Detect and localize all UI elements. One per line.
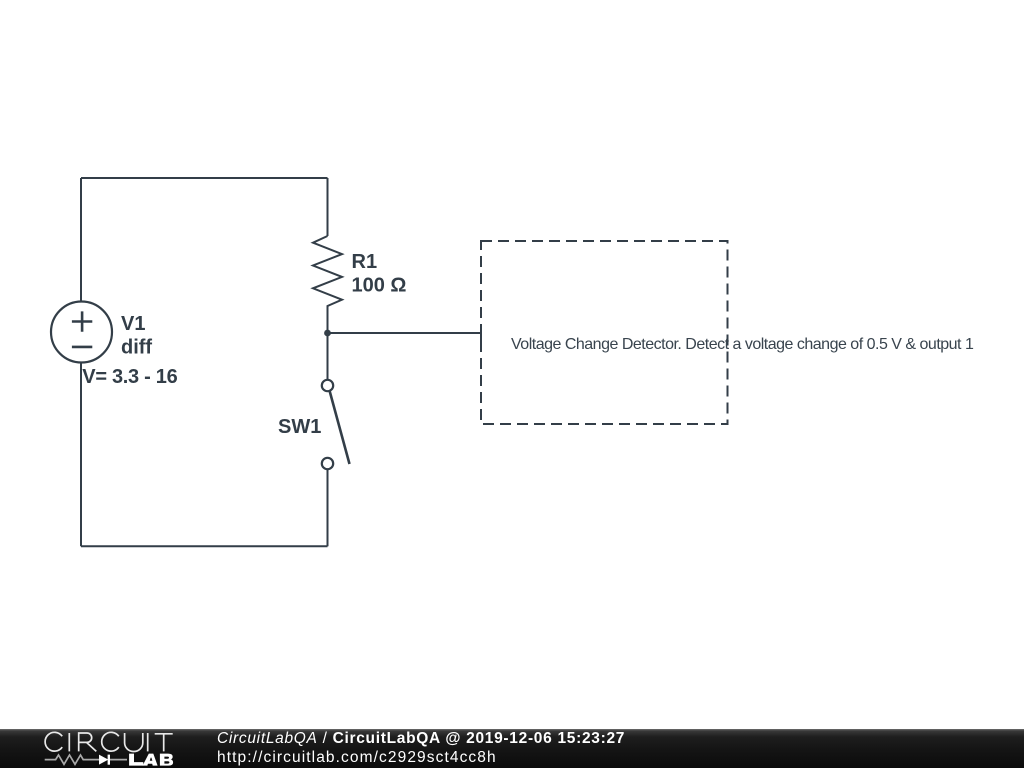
voltage source V1 xyxy=(51,302,112,363)
svg-text:100 Ω: 100 Ω xyxy=(352,275,407,297)
logo letter L xyxy=(129,754,143,766)
footer line 1 xyxy=(217,730,625,748)
detector dashed box xyxy=(481,241,728,424)
svg-text:SW1: SW1 xyxy=(278,416,321,438)
node junction dot xyxy=(324,330,331,337)
logo LAB text xyxy=(129,754,173,766)
logo letter R xyxy=(79,733,97,751)
labels xyxy=(82,251,406,438)
logo wire to LAB xyxy=(110,759,128,761)
CircuitLab logo xyxy=(0,729,180,768)
logo letter C xyxy=(45,732,62,751)
resistor R1 xyxy=(313,236,342,380)
wire node to detector xyxy=(328,332,482,334)
wire right rail to resistor xyxy=(327,178,329,236)
logo resistor xyxy=(45,755,99,764)
footer bar xyxy=(0,729,1024,768)
logo letter U xyxy=(125,733,143,752)
logo letter I xyxy=(147,733,149,751)
svg-text:diff: diff xyxy=(121,337,152,359)
logo letter A xyxy=(143,754,158,766)
wire left rail upper xyxy=(80,178,82,302)
svg-text:Voltage Change Detector. Detec: Voltage Change Detector. Detect a voltag… xyxy=(511,336,974,353)
logo letter B xyxy=(160,754,173,766)
svg-text:V1: V1 xyxy=(121,313,145,335)
footer line 2 xyxy=(217,749,497,767)
logo diode xyxy=(99,755,108,765)
logo letter I xyxy=(68,733,70,751)
wire switch to bottom rail xyxy=(327,469,329,546)
svg-text:R1: R1 xyxy=(352,251,378,273)
wire left rail lower xyxy=(80,363,82,547)
wire bottom rail xyxy=(81,545,328,547)
svg-text:V= 3.3 - 16: V= 3.3 - 16 xyxy=(82,366,177,388)
terminal pin of detector box xyxy=(480,325,482,343)
switch SW1 xyxy=(322,380,350,469)
wire top rail xyxy=(81,177,328,179)
logo letter T xyxy=(155,734,173,752)
logo letter C xyxy=(102,732,119,751)
